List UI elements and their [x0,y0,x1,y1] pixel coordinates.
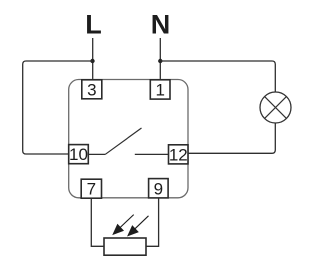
light arrow 1 [113,215,134,235]
wire terminal 7 down to sensor left [91,198,104,246]
switch blade S1 (open contact) [106,128,142,154]
device box U1 (twilight switch body) [69,80,188,198]
wire terminal 10 to switch pivot [88,153,105,155]
svg-text:7: 7 [87,180,96,199]
svg-text:3: 3 [87,80,96,99]
node N junction [158,59,162,63]
lamp E1 [260,92,291,123]
svg-text:1: 1 [155,80,164,99]
wire L lead down to terminal 3 [92,38,94,80]
svg-text:9: 9 [154,179,163,198]
terminal 7 [81,179,101,199]
svg-text:L: L [85,10,102,40]
wire lamp to terminal 12 [188,123,275,153]
wire terminal 9 down to sensor right [146,198,159,246]
wire N branch right to lamp [160,61,275,92]
light arrow 2 [128,216,149,236]
svg-text:12: 12 [169,145,188,164]
terminal 10 [69,145,89,165]
svg-text:10: 10 [69,145,88,164]
node L junction [90,59,94,63]
terminal 1 [150,80,170,100]
terminal 12 [169,145,189,165]
wire N lead down to terminal 1 [159,38,161,80]
photoresistor B1 (light sensor body) [104,238,146,255]
wire switch fixed contact to terminal 12 [135,153,169,155]
svg-text:N: N [151,10,171,40]
terminal 9 [149,179,169,199]
wire L branch left and down to terminal 10 [23,61,93,154]
terminal 3 [82,80,102,100]
